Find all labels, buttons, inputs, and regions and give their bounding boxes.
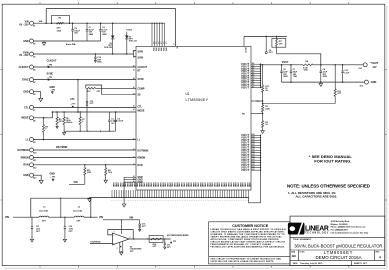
svg-text:REV.: REV.: [376, 251, 380, 253]
turret terminal E10: [30, 148, 34, 152]
svg-text:TP9: TP9: [173, 241, 176, 243]
svg-text:GND: GND: [234, 182, 236, 187]
wire COMP bypass loop: [86, 85, 102, 95]
capacitor C11: [31, 217, 33, 226]
svg-text:GND: GND: [206, 182, 208, 187]
capacitor C8 (electrolytic): [72, 23, 74, 29]
svg-text:NOTE: UNLESS OTHERWISE SPECIFI: NOTE: UNLESS OTHERWISE SPECIFIED: [287, 183, 370, 188]
svg-text:DEMO CIRCUIT 2016A: DEMO CIRCUIT 2016A: [315, 255, 361, 260]
test point circle on C10 branch: [86, 101, 88, 103]
svg-text:J12: J12: [252, 72, 255, 74]
resistor R9: [56, 112, 58, 117]
svg-text:0: 0: [45, 129, 46, 131]
resistor R10 on COMP wire: [87, 87, 96, 89]
svg-text:U1: U1: [186, 92, 190, 96]
svg-text:GND: GND: [192, 182, 194, 187]
ground under R2: [261, 131, 265, 134]
svg-text:GND: GND: [225, 182, 227, 187]
wire SVIN pin splitter: [133, 51, 135, 57]
svg-text:GND: GND: [164, 182, 166, 187]
svg-text:VIN: VIN: [162, 47, 164, 51]
wire VOUT rail: [261, 64, 304, 66]
svg-text:GND: GND: [147, 182, 149, 187]
svg-text:TECHNOLOGY: TECHNOLOGY: [305, 233, 329, 235]
junction dots divider: [262, 100, 264, 102]
svg-text:GND: GND: [244, 182, 246, 187]
svg-text:GND: GND: [140, 182, 142, 187]
page shadow right edge: [386, 6, 388, 268]
svg-text:GND: GND: [197, 182, 199, 187]
svg-text:GND: GND: [371, 81, 377, 84]
wire op-amp ground tie: [120, 251, 123, 253]
svg-text:J12: J12: [252, 70, 255, 72]
svg-text:VOUT: VOUT: [282, 61, 289, 64]
wire LL from E9 to U1: [33, 139, 136, 141]
svg-text:K12: K12: [252, 161, 255, 163]
capacitor C10out: [342, 65, 344, 71]
svg-text:MODE: MODE: [21, 117, 29, 120]
diode D1: [112, 23, 114, 35]
junction dot supply riser: [121, 219, 122, 220]
svg-text:⌀ TP1: ⌀ TP1: [71, 102, 76, 105]
svg-text:1206: 1206: [304, 70, 308, 72]
resistor R11: [105, 165, 107, 168]
svg-text:GND: GND: [23, 174, 29, 177]
svg-text:E11: E11: [33, 160, 36, 162]
svg-text:CTL: CTL: [24, 106, 29, 109]
svg-text:CUSTOMER NOTICE: CUSTOMER NOTICE: [232, 224, 269, 228]
svg-text:GND: GND: [241, 182, 243, 187]
svg-text:K12: K12: [252, 142, 255, 144]
junction dots SVIN wire: [95, 53, 97, 55]
junction dot C12: [64, 217, 65, 218]
svg-text:0805: 0805: [102, 34, 106, 36]
svg-text:E9: E9: [33, 142, 35, 144]
svg-text:VIN: VIN: [157, 47, 159, 51]
svg-text:E2: E2: [33, 44, 35, 46]
diode D2: [126, 32, 128, 36]
wire sense top pin riser: [243, 36, 245, 46]
resistor R12: [262, 85, 264, 92]
title block row line under logo: [290, 236, 385, 238]
svg-text:DATE:: DATE:: [293, 262, 298, 265]
svg-text:⌀ TP2: ⌀ TP2: [51, 175, 56, 178]
svg-text:SVIN: SVIN: [138, 57, 144, 59]
svg-text:GND: GND: [23, 91, 29, 94]
wire RUN from E12 to U1: [33, 164, 136, 166]
svg-text:VIN: VIN: [39, 21, 43, 23]
svg-text:E8: E8: [33, 120, 35, 122]
junction dots ground rail: [80, 131, 81, 132]
resistor R5: [63, 112, 65, 117]
turret terminal E11: [30, 155, 34, 159]
svg-text:K12: K12: [252, 134, 255, 136]
junction dots sense loop: [265, 36, 267, 38]
capacitor C3: [108, 112, 110, 120]
resistor R17 zigzag: [276, 36, 278, 39]
wire filter bypass top: [31, 198, 91, 217]
junction dots VOUT rail: [260, 64, 262, 66]
resistor R8 between MODE and LL wires: [43, 118, 45, 125]
svg-text:GND: GND: [138, 182, 140, 187]
svg-text:GND: GND: [157, 182, 159, 187]
svg-text:IC NO.: IC NO.: [300, 251, 306, 253]
svg-text:GND: GND: [222, 182, 224, 187]
svg-text:4mm DIA.: 4mm DIA.: [73, 210, 83, 213]
junction dot op-amp ground: [121, 251, 122, 252]
junction dots output GND: [290, 81, 292, 83]
svg-text:0.01uF: 0.01uF: [118, 121, 125, 123]
svg-text:GND: GND: [182, 182, 184, 187]
svg-text:0.1uF: 0.1uF: [344, 73, 350, 75]
wire MODE from E8 to U1: [33, 112, 136, 118]
svg-text:GND: GND: [199, 182, 201, 187]
turret terminal E6: [30, 90, 34, 94]
svg-text:GND: GND: [114, 182, 116, 187]
wire R2 to ground: [262, 128, 264, 131]
svg-text:K12: K12: [252, 169, 255, 171]
svg-text:IOUTMON: IOUTMON: [17, 149, 29, 152]
ground under output GND segment: [320, 82, 322, 83]
svg-text:E5: E5: [33, 82, 35, 84]
svg-text:VOUT: VOUT: [244, 47, 246, 53]
svg-text:K12: K12: [252, 157, 255, 159]
svg-text:CLKOUT: CLKOUT: [19, 66, 29, 69]
wire COMP branch down through C10: [86, 88, 88, 101]
svg-text:J12: J12: [252, 68, 255, 70]
svg-text:VERIFY PROPER AND RELIABLE OPE: VERIFY PROPER AND RELIABLE OPERATION IN …: [210, 235, 282, 238]
svg-text:VOUT: VOUT: [241, 85, 249, 89]
svg-text:GND: GND: [175, 182, 177, 187]
ground below left GND bus: [122, 204, 126, 207]
wire divider from VOUT bus: [262, 65, 264, 86]
wire SVIN from E3 to U1: [33, 53, 133, 55]
svg-text:SOD-123: SOD-123: [104, 47, 112, 49]
Linear Technology LT logo: [288, 223, 305, 235]
svg-text:GND: GND: [248, 182, 250, 187]
svg-text:K12: K12: [252, 137, 255, 139]
ground on rail: [63, 131, 65, 132]
U1 right pin stubs upper cluster VOUT: [251, 63, 261, 65]
svg-text:CIRCUIT BOARD LAYOUT MAY SIGNI: CIRCUIT BOARD LAYOUT MAY SIGNIFICANTLY A…: [210, 241, 285, 244]
svg-text:100K: 100K: [265, 108, 270, 110]
svg-text:332k: 332k: [87, 172, 91, 174]
svg-text:R10: R10: [87, 91, 90, 93]
svg-text:VIN: VIN: [129, 217, 133, 220]
svg-text:CTL: CTL: [70, 98, 75, 101]
svg-text:J12: J12: [252, 75, 255, 77]
ground under op-amp: [120, 252, 123, 255]
capacitor C14: [94, 54, 96, 57]
turret terminal E7: [30, 105, 34, 109]
turret terminal E12: [30, 163, 34, 167]
ground under E13: [39, 180, 43, 183]
svg-text:SYNC: SYNC: [47, 72, 54, 75]
svg-text:VIN: VIN: [152, 47, 154, 51]
ground under E6 wire: [39, 98, 43, 101]
svg-text:GND: GND: [178, 182, 180, 187]
turret terminal E4: [30, 65, 34, 69]
junction dots VIN wire: [45, 22, 47, 24]
wire IOUTMON into op-amp plus input: [90, 243, 113, 245]
svg-text:J12: J12: [252, 79, 255, 81]
svg-text:GND: GND: [50, 173, 56, 176]
resistor R14 zigzag: [151, 238, 162, 240]
svg-text:GND: GND: [229, 182, 231, 187]
svg-text:CIRCUIT THAT MEETS CUSTOMER-SU: CIRCUIT THAT MEETS CUSTOMER-SUPPLIED SPE…: [210, 230, 284, 233]
customer notice separator: [209, 256, 290, 258]
svg-text:GND: GND: [154, 182, 156, 187]
resistor R17 body box: [272, 38, 286, 47]
capacitor C15 with test point: [139, 220, 141, 224]
junction dots MODE wire: [52, 111, 54, 113]
resistor R6 body box: [52, 16, 70, 24]
svg-text:LTM8056EY: LTM8056EY: [186, 98, 209, 102]
wire COMP to U1: [96, 87, 137, 89]
resistor R15 pull-up: [84, 165, 86, 168]
svg-text:APPLICATION. COMPONENT SUBSTI: APPLICATION. COMPONENT SUBSTITUTION AND …: [210, 238, 279, 241]
resistor R14 body box: [149, 236, 163, 243]
border zone tick marks bottom: [39, 266, 41, 268]
svg-text:GND: GND: [152, 182, 154, 187]
svg-text:SUPPLIED FOR USE WITH LINEAR T: SUPPLIED FOR USE WITH LINEAR TECHNOLOGY …: [210, 260, 274, 263]
junction dots bottom GND bus: [112, 197, 113, 198]
wire sense to VOUT rail: [277, 54, 321, 65]
svg-text:SVIN: SVIN: [138, 51, 144, 53]
wire GND from E6 to ground: [33, 92, 40, 99]
svg-text:GND: GND: [150, 182, 152, 187]
svg-text:GND: GND: [168, 182, 170, 187]
svg-text:CLKOUT: CLKOUT: [138, 67, 148, 69]
svg-text:3%: 3%: [265, 90, 268, 92]
svg-text:7343: 7343: [293, 75, 297, 78]
wire U1 left GND pins bus: [124, 176, 136, 178]
capacitor C7: [290, 65, 292, 71]
junction dots RUN wire: [84, 164, 86, 166]
svg-text:K12: K12: [252, 144, 255, 146]
wire VIN drops to U1 top pins: [151, 23, 153, 46]
ground at TP6: [51, 90, 53, 93]
wire bottom GND bus: [90, 197, 249, 199]
wire supply riser to op-amp V+: [120, 220, 122, 234]
turret terminal E1: [30, 21, 34, 25]
U1 right pin FB stub: [251, 113, 263, 115]
svg-text:0805: 0805: [283, 76, 287, 78]
border zone tick marks top: [39, 2, 41, 4]
svg-text:2: 2: [114, 232, 115, 234]
svg-text:K12: K12: [252, 154, 255, 156]
svg-text:E6: E6: [33, 94, 35, 96]
title block outline: [290, 216, 385, 266]
svg-text:K12: K12: [252, 149, 255, 151]
wire SS to U1: [102, 94, 136, 96]
capacitor C2: [100, 23, 102, 29]
wire VOUT bus lower: [260, 135, 262, 170]
page shadow bottom edge: [4, 267, 387, 269]
svg-text:GND: GND: [211, 182, 213, 187]
svg-text:RUN: RUN: [138, 165, 143, 167]
svg-text:GND: GND: [189, 182, 191, 187]
svg-text:Phone: (408)432-1900 www.lin: Phone: (408)432-1900 www.linear.com: [331, 226, 366, 229]
turret terminal E2: [30, 39, 34, 43]
wire IOUTMON from E10 to U1: [33, 149, 136, 151]
resistor R13 remote sense: [334, 65, 336, 89]
svg-text:E3: E3: [33, 57, 35, 59]
ground at left end of GND bus: [89, 198, 91, 199]
svg-text:GND: GND: [142, 182, 144, 187]
svg-text:GND: GND: [145, 182, 147, 187]
svg-text:GND: GND: [161, 182, 163, 187]
svg-text:1630 McCarthy Blvd.: 1630 McCarthy Blvd.: [331, 220, 350, 223]
svg-text:GND: GND: [131, 182, 133, 187]
turret terminal E14 VOUT: [363, 63, 367, 67]
svg-text:K12: K12: [252, 164, 255, 166]
svg-text:GND: GND: [204, 182, 206, 187]
title block row line above date row: [290, 260, 385, 262]
svg-text:GND: GND: [227, 182, 229, 187]
svg-text:HOWEVER, IT REMAINS THE CUSTOM: HOWEVER, IT REMAINS THE CUSTOMER'S RESPO…: [210, 233, 284, 236]
svg-text:VIN: VIN: [5, 216, 9, 219]
junction dots VOUT bus lower: [260, 135, 261, 136]
svg-text:TITLE: SCHEMATIC: TITLE: SCHEMATIC: [293, 238, 312, 241]
junction dot LL R8: [43, 139, 45, 141]
svg-text:K12: K12: [252, 152, 255, 154]
svg-text:E15: E15: [360, 85, 363, 87]
svg-text:GND: GND: [236, 182, 238, 187]
svg-text:E1: E1: [33, 26, 35, 28]
svg-text:GND: GND: [246, 182, 248, 187]
wire compensation ground rail: [64, 130, 116, 132]
svg-text:J12: J12: [252, 65, 255, 67]
svg-text:0: 0: [82, 121, 83, 123]
svg-text:12V: 12V: [372, 67, 377, 69]
wire filter bottom: [31, 216, 39, 218]
test point square below op-amp: [120, 246, 121, 247]
capacitor C12: [64, 217, 66, 226]
svg-text:SS: SS: [138, 94, 142, 96]
svg-text:J12: J12: [252, 86, 255, 88]
capacitor C4: [115, 112, 117, 120]
capacitor C10: [86, 102, 88, 105]
wire feedback loop: [108, 230, 133, 239]
test point TP9: [170, 242, 172, 244]
junction dots VIN drops: [151, 23, 152, 24]
resistor R2: [262, 121, 264, 128]
svg-text:GND: GND: [187, 182, 189, 187]
test point TP1 square on CTL wire: [72, 106, 74, 108]
wire filter input from VIN net: [13, 216, 31, 218]
wire CLKOUT from E4 to U1: [33, 66, 136, 68]
svg-text:GND: GND: [239, 182, 241, 187]
svg-text:4mm DIA.: 4mm DIA.: [39, 210, 49, 213]
resistor R7: [79, 112, 81, 117]
svg-text:SYNC: SYNC: [22, 79, 29, 82]
wire SYNC from E5 to U1: [33, 79, 136, 81]
svg-text:RUN: RUN: [23, 164, 28, 167]
test point TP5 on SYNC: [48, 79, 50, 81]
svg-text:E14: E14: [359, 67, 362, 70]
svg-text:TP8: TP8: [256, 101, 259, 103]
op-amp bottom pin stubs: [119, 242, 121, 252]
svg-text:IOUTMON: IOUTMON: [56, 146, 68, 149]
svg-text:N/A: N/A: [292, 255, 297, 258]
wire R12 to R3: [262, 92, 264, 104]
svg-text:GND: GND: [218, 182, 220, 187]
junction dot SYNC to MODE riser: [77, 79, 79, 81]
junction dot left GND bus to bottom bus: [124, 197, 125, 198]
svg-text:GND: GND: [208, 182, 210, 187]
capacitor C6: [281, 65, 283, 71]
svg-text:VOUT: VOUT: [241, 168, 249, 172]
svg-text:LTC Confidential-For Customer: LTC Confidential-For Customer Use Only: [331, 232, 370, 235]
wire GND from E2: [33, 40, 100, 42]
svg-text:6V - 25V: 6V - 25V: [19, 54, 29, 57]
svg-text:SOD-123: SOD-123: [129, 41, 137, 43]
turret terminal E15 GND: [364, 80, 368, 84]
svg-text:0805: 0805: [97, 61, 101, 63]
svg-text:CTL: CTL: [138, 107, 143, 109]
svg-text:* VOUT: * VOUT: [370, 62, 379, 65]
svg-text:GND: GND: [194, 182, 196, 187]
capacitor C1: [86, 23, 88, 29]
svg-text:J12: J12: [252, 82, 255, 84]
svg-text:0805: 0805: [323, 76, 327, 78]
ground at TP2: [52, 178, 54, 179]
svg-text:GND: GND: [159, 182, 161, 187]
svg-text:-: -: [114, 234, 115, 238]
test point TP4 on CLKOUT: [48, 66, 50, 68]
svg-text:0805: 0805: [89, 34, 93, 36]
svg-text:GND: GND: [133, 182, 135, 187]
title block row line above part number row: [290, 249, 385, 251]
turret terminal E9: [30, 138, 34, 142]
wire GND from E13 to ground: [33, 175, 41, 180]
svg-text:4mm DIA.: 4mm DIA.: [66, 43, 76, 46]
svg-text:GND: GND: [23, 40, 29, 43]
svg-text:MODE: MODE: [138, 110, 145, 112]
rev cell divider: [373, 250, 375, 261]
svg-text:IOUTMON: IOUTMON: [138, 150, 149, 152]
U1 right pin test stub: [251, 100, 263, 102]
wire VOUT sense loop top: [244, 35, 287, 37]
resistor R4 current sense zigzag: [303, 64, 313, 66]
svg-text:ALL CAPACITORS ARE 0603.: ALL CAPACITORS ARE 0603.: [296, 195, 338, 199]
wire SYNC riser down to MODE wire: [77, 80, 79, 112]
op-module U1 LTM8056EY body: [136, 46, 251, 190]
svg-text:GND: GND: [173, 182, 175, 187]
U1 bottom GND pin stubs: [111, 190, 113, 198]
svg-text:GND: GND: [180, 182, 182, 187]
svg-text:GND: GND: [215, 182, 217, 187]
sheet cell divider: [351, 261, 353, 266]
svg-text:K12: K12: [252, 166, 255, 168]
svg-text:LINEAR TECHNOLOGY HAS MADE A B: LINEAR TECHNOLOGY HAS MADE A BEST EFFORT…: [210, 228, 286, 231]
junction dots filter: [60, 198, 61, 199]
svg-text:⌀ TP4: ⌀ TP4: [48, 63, 53, 66]
svg-text:GND: GND: [117, 182, 119, 187]
svg-text:J12: J12: [252, 63, 255, 65]
svg-text:IOUTMON BUFFERED: IOUTMON BUFFERED: [167, 235, 189, 237]
svg-text:GND: GND: [185, 182, 187, 187]
svg-text:VIN: VIN: [74, 181, 78, 184]
wire VIN from E1 to U1 top pins: [33, 22, 164, 24]
svg-text:COMP: COMP: [138, 88, 145, 90]
svg-text:PERFORMANCE OR RELIABILITY. C: PERFORMANCE OR RELIABILITY. CONTACT LINE…: [210, 243, 271, 246]
svg-text:SHEET 1 OF 1: SHEET 1 OF 1: [354, 263, 368, 265]
wire VIN net stub at R15: [69, 183, 85, 185]
wire IRMON from E11 to U1: [33, 156, 136, 158]
svg-text:VIN: VIN: [160, 47, 162, 51]
